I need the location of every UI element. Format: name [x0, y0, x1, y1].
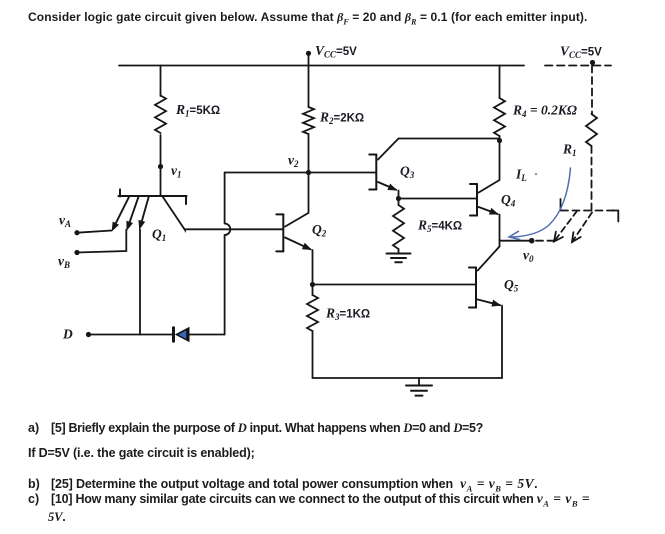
resistor R1 load (dashed branch) [586, 114, 597, 146]
svg-text:v2: v2 [288, 153, 299, 170]
transistor Q5 emitter [478, 300, 500, 306]
transistor Q3 base bar [375, 155, 377, 190]
dashed load emitter arrow 2 [572, 213, 592, 243]
wire bottom emitter rail [313, 377, 503, 379]
diode D1 triangle [175, 327, 190, 342]
svg-text:vB: vB [58, 254, 70, 271]
question b [28, 476, 537, 494]
svg-text:R2=2KΩ: R2=2KΩ [319, 110, 364, 127]
svg-text:D: D [62, 327, 73, 342]
wire R1 bottom to Q1 base [160, 135, 162, 195]
ground bottom [418, 378, 420, 385]
load bar right corner [612, 211, 618, 222]
resistor R3 [307, 295, 318, 331]
node R3 top [310, 282, 315, 287]
svg-text:Q5: Q5 [504, 277, 519, 294]
svg-text:Q1: Q1 [152, 227, 166, 244]
node v2 [306, 170, 311, 175]
transistor Q1 multi-emitter base bar [118, 195, 186, 197]
svg-text:Q3: Q3 [400, 164, 415, 181]
stray dot next to IL [535, 173, 538, 176]
wire v0 dashed stub [536, 240, 559, 242]
diode D1 cathode bar [172, 328, 175, 342]
question c [28, 491, 590, 509]
wire Q3 emitter to node [398, 191, 400, 199]
title line [28, 10, 587, 26]
wire R3 bottom [312, 331, 314, 378]
wire Q3 collector to R4 node [399, 138, 500, 140]
resistor R2 [303, 107, 314, 134]
svg-text:Q2: Q2 [312, 222, 327, 239]
wire top supply rail [119, 65, 524, 67]
input vA node and wire [74, 230, 79, 235]
svg-text:R1: R1 [562, 142, 577, 159]
transistor Q3 collector [378, 139, 399, 160]
wire Q5 base [313, 284, 476, 286]
wire v0 [500, 240, 532, 242]
node v1 [158, 164, 163, 169]
wire emitter3 down to D line [139, 230, 141, 335]
svg-text:R1=5KΩ: R1=5KΩ [175, 102, 220, 119]
transistor Q1 emitter 1 [113, 197, 129, 229]
transistor Q1 emitter 2 [128, 197, 139, 228]
dashed load emitter arrow 1 [554, 211, 577, 242]
wire dashed R1 branch lower [591, 146, 593, 211]
transistor Q5 collector [478, 247, 500, 271]
transistor Q4 base bar [476, 184, 478, 216]
svg-text:VCC=5V: VCC=5V [560, 44, 602, 61]
svg-text:R3=1KΩ: R3=1KΩ [325, 306, 370, 323]
wire Q1 collector to Q2 base [185, 228, 283, 230]
load bar left tick [560, 199, 562, 211]
transistor Q3 emitter [378, 182, 396, 190]
node Vcc right dot [590, 60, 595, 65]
wire diode to right corner [189, 334, 225, 336]
svg-text:vA: vA [59, 213, 71, 230]
wire dashed load base bar [561, 210, 615, 212]
transistor Q1 collector [163, 197, 185, 230]
resistor R1 [155, 96, 166, 134]
wire v2 horizontal to Q3 base [225, 172, 376, 174]
question c cont [48, 510, 66, 525]
wire Q4 emitter down to v0 and Q5 collector [499, 215, 501, 247]
wire hop bottom down to D line [224, 235, 226, 335]
resistor R4 [494, 98, 505, 136]
node R4 bottom [497, 138, 502, 143]
transistor Q1 emitter 3 [140, 197, 149, 227]
node Q3 emitter junction [396, 196, 401, 201]
svg-text:v1: v1 [171, 163, 182, 180]
node Vcc left dot [306, 51, 311, 56]
wire dashed supply rail right [545, 65, 611, 67]
question a [28, 421, 483, 436]
blue current arrow [512, 168, 571, 237]
wire dashed R1 branch upper [591, 66, 593, 115]
transistor Q2 collector [285, 173, 309, 227]
svg-text:R5=4KΩ: R5=4KΩ [417, 218, 462, 235]
wire R4 top stem [499, 66, 501, 99]
wire Q2 emitter down to R3 node [312, 250, 314, 285]
transistor Q2 base bar [282, 214, 284, 251]
enable note [28, 446, 255, 460]
svg-text:IL: IL [515, 167, 527, 184]
wire node to Q4 base [399, 198, 477, 200]
label Vcc left [58, 43, 602, 342]
wire vertical v2 corner down to hop [224, 173, 226, 224]
svg-text:VCC=5V: VCC=5V [315, 43, 357, 60]
wire R1 top stem [160, 66, 162, 97]
wire Q5 emitter down [501, 306, 503, 379]
svg-text:R4 = 0.2KΩ: R4 = 0.2KΩ [512, 103, 577, 120]
transistor Q5 base bar [475, 268, 477, 308]
wire hop over Q1 collector [225, 224, 231, 236]
svg-text:v0: v0 [523, 248, 534, 265]
transistor Q4 collector [479, 141, 500, 193]
transistor Q2 emitter [285, 238, 311, 250]
ground R5 [387, 253, 411, 255]
resistor R5 [393, 205, 404, 249]
transistor Q4 emitter [479, 207, 498, 214]
svg-text:Q4: Q4 [501, 192, 516, 209]
node v0 [529, 238, 535, 244]
input D node and wire [86, 332, 91, 337]
wire R2 bottom to v2 [308, 134, 310, 173]
wire Vcc stem through rail to R2 top [308, 53, 310, 107]
input vB node and wire [74, 250, 79, 255]
